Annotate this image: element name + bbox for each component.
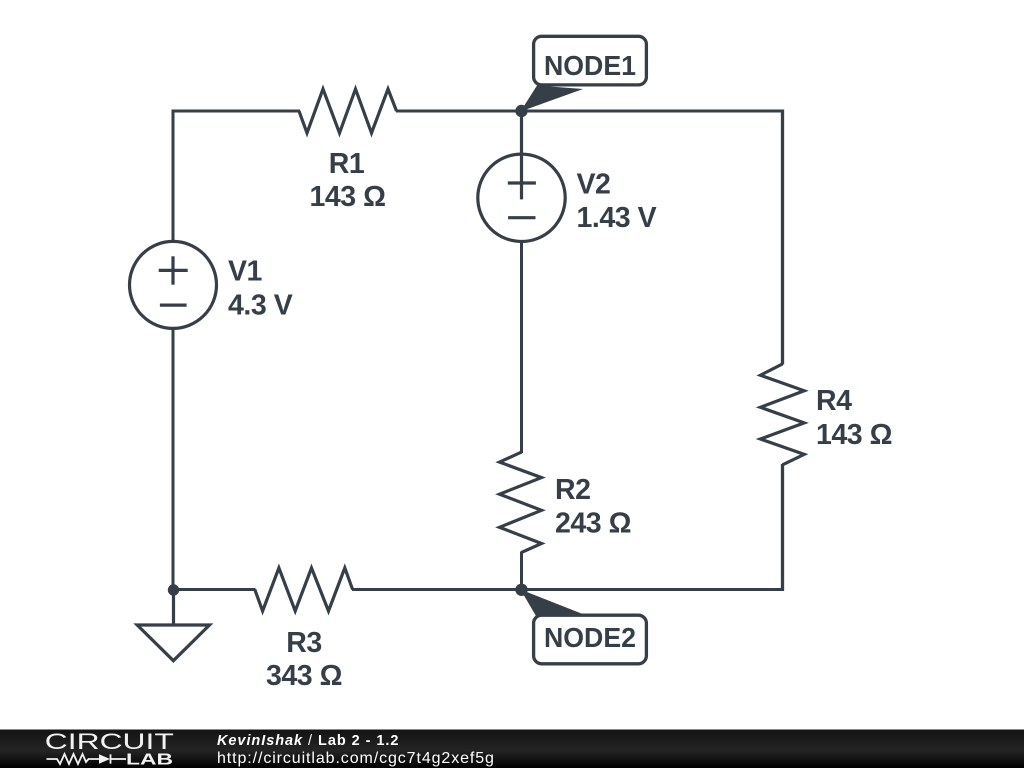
wire: left rail upper: [172, 110, 175, 242]
wire: R2 to node2: [520, 552, 523, 591]
svg-text:LAB: LAB: [126, 752, 173, 768]
svg-text:1.43 V: 1.43 V: [577, 202, 657, 234]
voltage source V1: [130, 241, 217, 328]
svg-text:343 Ω: 343 Ω: [266, 660, 342, 692]
ground: [137, 590, 209, 661]
node NODE1 flag: [521, 36, 647, 111]
svg-text:V1: V1: [228, 256, 263, 288]
svg-text:143 Ω: 143 Ω: [816, 419, 892, 451]
resistor R1: [299, 89, 397, 133]
resistor R2: [500, 452, 542, 552]
node NODE2 flag: [521, 590, 647, 664]
resistor R4: [760, 364, 804, 465]
svg-text:NODE2: NODE2: [544, 622, 636, 653]
junction node1 dot: [515, 105, 527, 117]
svg-text:143 Ω: 143 Ω: [309, 181, 385, 213]
wire: node1 to V2 plus lead: [520, 111, 523, 199]
wire: right rail lower: [781, 464, 784, 591]
svg-text:243 Ω: 243 Ω: [555, 508, 631, 540]
voltage source V2: [478, 154, 565, 241]
svg-text:KevinIshak / Lab 2 - 1.2: KevinIshak / Lab 2 - 1.2: [217, 733, 399, 749]
wire: top rail left segment: [173, 110, 300, 113]
wire: left rail lower: [172, 328, 175, 590]
junction node2 dot: [515, 584, 527, 596]
svg-text:R3: R3: [286, 627, 322, 659]
svg-text:R2: R2: [555, 474, 591, 506]
svg-text:4.3 V: 4.3 V: [228, 289, 293, 321]
svg-text:http://circuitlab.com/cgc7t4g2: http://circuitlab.com/cgc7t4g2xef5g: [217, 750, 495, 767]
svg-text:R4: R4: [816, 385, 852, 417]
wire: V2 to R2: [520, 242, 523, 453]
wire: right rail upper: [781, 110, 784, 365]
svg-text:R1: R1: [329, 148, 365, 180]
wire: bottom rail right segment: [352, 588, 783, 591]
svg-text:V2: V2: [577, 169, 611, 201]
svg-text:CIRCUIT: CIRCUIT: [45, 729, 174, 754]
logo CIRCUIT LAB: [45, 729, 174, 768]
resistor R3: [255, 568, 353, 611]
svg-text:NODE1: NODE1: [544, 50, 636, 81]
wire: bottom rail left segment: [173, 588, 256, 591]
junction ground dot: [168, 584, 179, 595]
wire: top rail right segment: [396, 110, 784, 113]
footer bar: [0, 730, 1024, 768]
